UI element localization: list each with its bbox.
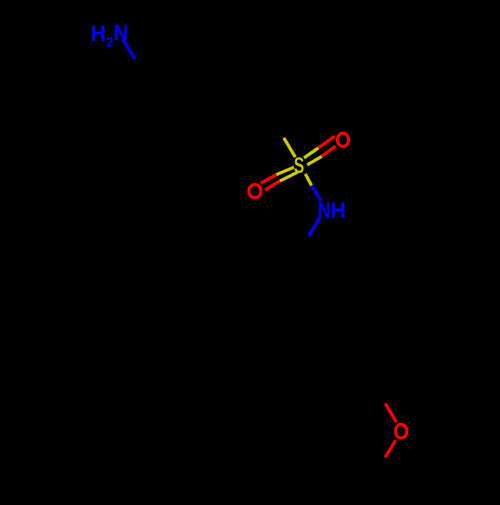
bond S-N (yellow half) — [305, 174, 311, 186]
double bond S=O lower-left, line 2 yellow half — [280, 172, 298, 181]
amine label H2N : H glyph — [92, 26, 104, 41]
double bond S=O lower-left, line 1 red half — [261, 175, 276, 183]
bond N-CH2 (blue half) — [309, 217, 320, 236]
bond C-S (yellow half, upper-left of S) — [284, 138, 296, 157]
bond O-CH3 methoxy lower (red half) — [385, 440, 396, 457]
double bond S=O upper-right, line 1 red half — [318, 136, 334, 148]
amine label H2N : N glyph — [115, 25, 127, 40]
oxygen label O lower-left — [249, 184, 261, 197]
bond N-C (amine to ring carbon, blue half) — [123, 39, 135, 59]
bond C-O methoxy upper (red half) — [385, 404, 396, 423]
amide label NH : N glyph — [319, 202, 330, 217]
double bond S=O lower-left, line 2 red half — [265, 181, 280, 190]
amide label NH : H glyph — [332, 202, 344, 217]
double bond S=O lower-left, line 1 yellow half — [276, 167, 294, 175]
double bond S=O upper-right, line 1 yellow half — [304, 148, 318, 158]
amine label H2N : subscript 2 glyph — [107, 37, 113, 46]
sulfur atom label S glyph — [294, 157, 303, 173]
double bond S=O upper-right, line 2 yellow half — [307, 156, 322, 165]
double bond S=O upper-right, line 2 red half — [322, 146, 336, 156]
oxygen label O upper-right — [337, 133, 348, 146]
bond S-N (blue half) — [312, 186, 321, 201]
oxygen label O methoxy — [396, 424, 407, 438]
